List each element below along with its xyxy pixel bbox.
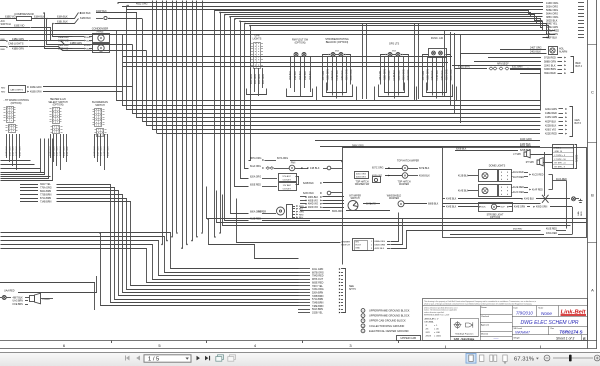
svg-text:1 / 5: 1 / 5 (148, 356, 159, 362)
svg-text:67.31%: 67.31% (514, 356, 535, 362)
